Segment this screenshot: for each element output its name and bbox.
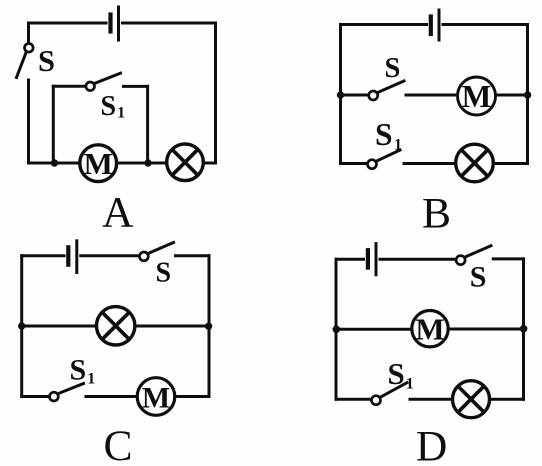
wire D bottom 1 [336,398,371,401]
wire B right vertical [526,25,529,164]
battery BT-B [431,10,439,40]
switch S (C) [140,243,174,261]
wire B bottom 1 [341,162,368,165]
battery BT-C [68,241,77,273]
wire A inner-loop top-left [53,85,86,88]
node D mid-right [520,325,528,333]
wire C top-left [22,254,64,257]
wire B bottom 2 [404,162,456,165]
wire B top-left [341,23,427,26]
switch S (D) [456,246,491,265]
wire C top-right [176,254,210,257]
wire A inner-loop right vertical [146,86,149,163]
wire B mid 1 [341,94,369,97]
wire B mid 2 [406,94,458,97]
switch S1 (A) [86,73,121,90]
wire D top-right [493,257,523,260]
wire A inner-loop top-right [124,85,148,88]
svg-text:S: S [470,261,487,294]
svg-text:B: B [422,190,451,238]
wire D mid 1 [336,328,412,331]
motor M (C) [137,378,175,416]
wire D top-left [336,258,364,261]
node C mid-right [205,323,212,330]
svg-text:D: D [416,423,447,466]
svg-text:M: M [462,79,492,114]
wire D mid 2 [448,328,523,331]
node B mid-left [337,91,344,98]
lamp L (C) [97,307,135,345]
wire C bottom 1 [22,395,50,398]
wire D right vertical [522,259,525,399]
svg-text:M: M [415,311,444,346]
switch S1 (B) [368,150,401,169]
battery BT-A [111,7,119,40]
wire D top-mid [380,258,456,261]
wire B left vertical [339,25,342,164]
motor M (D) [412,311,448,347]
switch S1 (C) [50,384,84,402]
svg-text:S: S [156,257,172,288]
wire C bottom 3 [175,395,209,398]
svg-text:M: M [84,146,113,181]
svg-text:M: M [142,381,170,414]
svg-text:A: A [102,189,134,237]
wire A right vertical [214,23,217,163]
svg-text:C: C [103,422,132,466]
wire B top-right [443,23,528,26]
wire C bottom 2 [86,395,137,398]
wire A left lower [27,80,30,163]
lamp L (A) [167,144,204,181]
wire A top-left [29,22,107,25]
node D mid-left [333,326,341,334]
wire D left vertical [335,259,338,399]
node A-right junction [144,159,151,166]
wire A bottom 1 [29,162,81,165]
switch S (A) [17,44,34,78]
wire A inner-loop left vertical [52,86,55,163]
wire B mid 3 [496,94,528,97]
wire A top-right [123,22,216,25]
motor M (B) [458,77,496,115]
wire C left vertical [20,256,23,397]
wire D bottom 2 [410,398,453,401]
svg-text:S: S [38,44,55,78]
wire C mid 1 [22,325,97,328]
wire A bottom 3 [203,162,215,165]
svg-text:S: S [385,53,401,84]
wire A left upper [27,23,30,44]
node C mid-left [18,322,25,329]
wire B bottom 3 [493,162,527,165]
wire C top-mid [81,254,140,257]
switch S1 (D) [372,383,408,405]
node B mid-right [524,91,531,98]
wire C mid 2 [135,325,209,328]
switch S (B) [369,81,404,100]
wire D bottom 3 [490,398,524,401]
wire C right vertical [208,256,211,397]
lamp L (D) [453,381,490,418]
motor M (A) [80,145,117,182]
lamp L (B) [456,144,494,182]
wire A bottom 2 [117,162,167,165]
node A-left junction [51,159,58,166]
battery BT-D [368,244,376,275]
